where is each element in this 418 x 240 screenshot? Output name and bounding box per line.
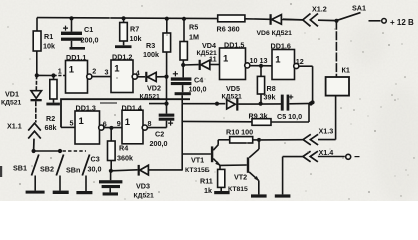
svg-text:1M: 1M <box>189 33 199 42</box>
svg-text:VD2: VD2 <box>147 84 161 93</box>
svg-text:DD1.2: DD1.2 <box>112 53 132 62</box>
wire stray segment <box>100 102 117 104</box>
svg-text:DD1.6: DD1.6 <box>271 42 291 51</box>
diode VD1 <box>31 75 42 122</box>
paper speck field <box>7 3 414 200</box>
svg-text:VD4: VD4 <box>202 41 216 50</box>
svg-text:1: 1 <box>79 116 85 127</box>
resistor R10 value 100 <box>218 137 261 143</box>
svg-text:X1.3: X1.3 <box>319 127 334 136</box>
svg-text:13: 13 <box>260 56 268 65</box>
svg-text:360k: 360k <box>117 154 133 163</box>
resistor R6 value 360 <box>218 15 245 22</box>
svg-text:1: 1 <box>275 55 281 66</box>
resistor R8 <box>257 66 264 106</box>
capacitor C5 <box>281 95 313 111</box>
resistor R9 value 3k <box>252 104 309 126</box>
switch SA1 <box>335 13 387 24</box>
svg-text:100,0: 100,0 <box>189 85 207 94</box>
svg-text:200,0: 200,0 <box>81 36 99 45</box>
svg-text:4: 4 <box>136 69 140 78</box>
relay K1 <box>326 21 349 140</box>
wire DD1.5 out to DD1.6 in <box>250 64 272 68</box>
svg-text:11: 11 <box>209 55 217 64</box>
diode VD6 <box>245 14 303 25</box>
resistor R5 <box>180 17 187 65</box>
wire left edge artifact <box>0 166 2 177</box>
wire common rail mid <box>182 102 225 106</box>
svg-text:C3: C3 <box>91 155 100 164</box>
svg-text:R9 3k: R9 3k <box>249 112 268 121</box>
svg-text:C4: C4 <box>194 76 203 85</box>
wire feedback to pin5 <box>61 99 190 127</box>
svg-text:VD5: VD5 <box>226 84 240 93</box>
logic inverter DD1.3 <box>75 111 104 144</box>
svg-text:10k: 10k <box>43 42 55 51</box>
logic inverter DD1.2 <box>111 60 137 93</box>
svg-text:КД521: КД521 <box>134 193 155 200</box>
svg-text:1: 1 <box>58 67 62 76</box>
resistor R4 <box>108 128 116 173</box>
ground under R2 <box>46 103 60 106</box>
svg-text:VT1: VT1 <box>191 156 204 165</box>
switch SBn <box>76 155 92 195</box>
svg-text:КД521: КД521 <box>1 100 22 107</box>
svg-text:SBn: SBn <box>66 166 80 175</box>
diode VD2 <box>138 72 169 82</box>
connector X1.3 <box>261 134 336 145</box>
capacitor C3 <box>99 171 122 196</box>
svg-text:1: 1 <box>114 64 120 75</box>
svg-text:R5: R5 <box>189 23 198 32</box>
connector X1.2 <box>303 14 337 27</box>
svg-text:1: 1 <box>223 54 229 65</box>
diode VD3 <box>111 165 182 176</box>
svg-text:VT2: VT2 <box>234 173 247 182</box>
wire timing branch <box>182 104 252 171</box>
svg-text:X1.2: X1.2 <box>312 5 327 14</box>
svg-text:30,0: 30,0 <box>88 165 102 174</box>
svg-text:SB2: SB2 <box>40 165 54 174</box>
svg-text:КТ315Б: КТ315Б <box>185 167 210 174</box>
svg-text:1k: 1k <box>204 186 212 195</box>
svg-text:39k: 39k <box>264 93 276 102</box>
svg-text:R7: R7 <box>130 25 139 34</box>
svg-text:9: 9 <box>117 119 121 128</box>
svg-text:SA1: SA1 <box>352 4 366 13</box>
svg-text:DD1.5: DD1.5 <box>224 41 244 50</box>
svg-text:VD3: VD3 <box>136 182 150 191</box>
svg-text:3: 3 <box>105 68 109 77</box>
diode VD4 <box>183 60 219 70</box>
wire buttons bus <box>31 149 86 153</box>
svg-text:10k: 10k <box>130 34 142 43</box>
svg-text:SB1: SB1 <box>13 164 27 173</box>
svg-text:10: 10 <box>250 56 258 65</box>
svg-text:2: 2 <box>92 67 96 76</box>
switch SB1 <box>26 155 45 194</box>
svg-text:КД521: КД521 <box>222 94 243 101</box>
svg-text:X1.1: X1.1 <box>7 122 22 131</box>
svg-text:C5 10,0: C5 10,0 <box>277 112 302 121</box>
connector X1.4 <box>283 151 360 162</box>
wire DD1.3 out to DD1.4 in <box>104 126 122 130</box>
svg-text:DD1.4: DD1.4 <box>122 104 142 113</box>
wire DD1.6 out down <box>299 66 315 104</box>
wire node input DD1.1 <box>35 73 66 77</box>
svg-text:R6 360: R6 360 <box>217 25 240 34</box>
diode VD5 <box>227 98 281 111</box>
svg-text:VD1: VD1 <box>5 90 19 99</box>
svg-text:100k: 100k <box>143 50 159 59</box>
svg-text:68k: 68k <box>45 123 57 132</box>
wire collector VT2 up <box>249 140 259 158</box>
wire DD1.1 out to DD1.2 in <box>92 76 111 78</box>
svg-text:R10 100: R10 100 <box>226 128 253 137</box>
resistor R7 <box>115 16 132 48</box>
capacitor C1 <box>61 16 85 49</box>
svg-text:К1: К1 <box>342 66 350 75</box>
svg-text:12: 12 <box>296 57 304 66</box>
resistor R1 <box>33 18 41 76</box>
resistor R3 <box>163 17 171 77</box>
svg-text:КД521: КД521 <box>140 94 161 101</box>
svg-text:X1.4: X1.4 <box>319 148 334 157</box>
logic inverter DD1.4 <box>122 110 147 144</box>
capacitor C2 <box>147 77 174 128</box>
connector X1.1 <box>28 123 41 151</box>
svg-text:6: 6 <box>103 120 107 129</box>
svg-text:R1: R1 <box>44 32 53 41</box>
svg-text:8: 8 <box>148 119 152 128</box>
svg-text:DD1.1: DD1.1 <box>66 53 86 62</box>
transistor Q2 : VT2 <box>220 157 267 197</box>
svg-text:C2: C2 <box>155 130 164 139</box>
logic inverter DD1.6 <box>272 50 299 80</box>
logic inverter DD1.5 <box>220 48 250 80</box>
capacitor C4 <box>171 63 192 104</box>
resistor R2 <box>50 76 57 103</box>
switch SB2 <box>53 155 69 195</box>
svg-text:200,0: 200,0 <box>150 139 168 148</box>
svg-text:R3: R3 <box>146 41 155 50</box>
svg-text:R4: R4 <box>119 144 128 153</box>
svg-text:1: 1 <box>69 65 75 76</box>
svg-text:VD6 КД521: VD6 КД521 <box>257 30 293 37</box>
svg-text:C1: C1 <box>84 25 93 34</box>
svg-text:КТ815: КТ815 <box>228 186 248 193</box>
resistor R11 <box>214 165 229 194</box>
svg-text:DD1.3: DD1.3 <box>76 104 96 113</box>
svg-text:+ 12 В: + 12 В <box>390 18 414 27</box>
wire top supply rail <box>37 18 303 20</box>
svg-text:R11: R11 <box>200 177 213 186</box>
op-amp U1 : logic inverter DD1.1 <box>66 61 92 94</box>
svg-text:5: 5 <box>70 119 74 128</box>
transistor Q1 : VT1 <box>182 140 220 166</box>
svg-text:R2: R2 <box>46 114 55 123</box>
wire X1.4 to ground <box>275 157 291 198</box>
svg-text:1: 1 <box>125 117 131 128</box>
